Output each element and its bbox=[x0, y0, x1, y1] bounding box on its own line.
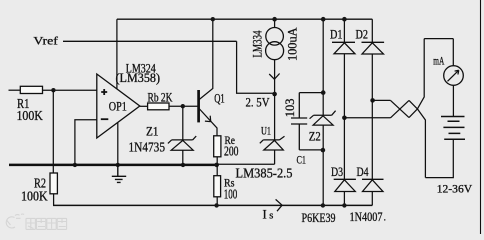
resistor R2 bbox=[50, 173, 57, 205]
svg-text:(LM358): (LM358) bbox=[116, 71, 161, 85]
node 2.5V label bbox=[246, 96, 270, 110]
resistor R1 bbox=[9, 86, 97, 93]
wire bottom return bbox=[53, 204, 372, 206]
svg-text:mA: mA bbox=[433, 56, 444, 68]
node junction Z1-bus bbox=[181, 163, 185, 167]
capacitor C1 103 bbox=[291, 93, 323, 150]
wire meter to battery bbox=[452, 85, 454, 116]
node R1 label bbox=[17, 96, 43, 124]
node D2 label bbox=[356, 27, 369, 42]
svg-text:12-36V: 12-36V bbox=[437, 181, 473, 195]
node junction C1 lower bbox=[321, 148, 326, 153]
svg-text:100K: 100K bbox=[21, 189, 48, 204]
battery 12-36V bbox=[441, 117, 465, 140]
node plus input bbox=[101, 89, 107, 95]
svg-text:Z1: Z1 bbox=[146, 124, 159, 139]
node junction minus-bus bbox=[73, 163, 77, 167]
node minus input bbox=[101, 118, 109, 120]
node LM334 label bbox=[250, 30, 265, 57]
svg-text:.: . bbox=[384, 213, 387, 224]
node U1 label bbox=[261, 124, 271, 138]
wire D2 node to crossover bbox=[373, 99, 391, 101]
transistor Q1 bbox=[199, 19, 217, 136]
diode D3 bbox=[334, 118, 356, 206]
node junction Q1 collector bbox=[211, 17, 215, 21]
node Re label bbox=[224, 135, 239, 158]
wire inverting input to bus bbox=[75, 120, 97, 165]
resistor Re bbox=[214, 136, 221, 164]
node Z1 label bbox=[129, 124, 166, 156]
resistor Rs bbox=[214, 165, 221, 206]
node Rs label bbox=[224, 178, 238, 202]
node mA label bbox=[433, 56, 444, 68]
svg-text:U1: U1 bbox=[261, 124, 271, 138]
node junction Re-Rs bbox=[214, 163, 219, 168]
svg-text:I: I bbox=[263, 207, 267, 221]
node Q1 label bbox=[214, 91, 225, 105]
zener Z2 bbox=[310, 111, 336, 125]
resistor Rb 2K bbox=[148, 103, 199, 110]
node junction Z2 upper bbox=[321, 90, 326, 95]
wire D2 to D4 bbox=[371, 100, 373, 179]
wire Vref to 2.5V node bbox=[237, 41, 275, 93]
node Z2 label bbox=[309, 128, 321, 143]
diode D1 bbox=[332, 19, 355, 118]
wire Vref bbox=[63, 40, 237, 42]
op-amp U1 OP1 bbox=[97, 74, 140, 138]
node 1N4007 label bbox=[350, 209, 387, 224]
wire op-amp V+ branch bbox=[116, 19, 118, 89]
svg-text:D3: D3 bbox=[331, 164, 343, 179]
wire meter loop top bbox=[424, 39, 453, 66]
node junction D3 bottom bbox=[342, 203, 346, 207]
svg-text:OP1: OP1 bbox=[109, 99, 127, 113]
svg-text:103: 103 bbox=[282, 99, 297, 118]
wire crossover and diamond connector bbox=[391, 39, 426, 178]
node Vref label bbox=[33, 34, 58, 48]
node LM385-2.5 label bbox=[236, 167, 293, 182]
zener Z1 bbox=[168, 106, 196, 165]
svg-text:R2: R2 bbox=[34, 176, 46, 191]
diode D2 bbox=[362, 19, 385, 100]
zener U1 LM385-2.5 bbox=[260, 94, 285, 164]
svg-text:D4: D4 bbox=[357, 164, 369, 179]
svg-text:LM334: LM334 bbox=[250, 30, 265, 57]
wire op-amp output bbox=[140, 105, 148, 107]
svg-text:Q1: Q1 bbox=[214, 91, 225, 105]
current source LM334 bbox=[266, 19, 284, 94]
watermark bbox=[6, 214, 66, 229]
meter mA bbox=[444, 66, 464, 86]
wire common bus bbox=[9, 164, 217, 167]
svg-text:100K: 100K bbox=[17, 109, 43, 124]
svg-text:Z2: Z2 bbox=[309, 128, 321, 143]
diode D4 bbox=[362, 179, 384, 205]
node junction Z2 bottom bbox=[321, 203, 325, 207]
svg-text:Vref: Vref bbox=[33, 34, 58, 48]
svg-text:s: s bbox=[269, 211, 273, 222]
node R2 label bbox=[21, 176, 48, 205]
svg-text:Rb 2K: Rb 2K bbox=[148, 91, 173, 105]
node LM324 LM358 label bbox=[116, 61, 161, 85]
wire battery bottom return bbox=[425, 139, 453, 177]
node junction 2.5V bbox=[272, 92, 277, 97]
wire op-amp V- pin to bus bbox=[117, 122, 119, 164]
node Rb label bbox=[148, 91, 173, 105]
svg-text:1N4007: 1N4007 bbox=[350, 209, 383, 224]
svg-text:LM385-2.5: LM385-2.5 bbox=[236, 167, 293, 182]
node junction D2 mid bbox=[370, 98, 375, 103]
ground bbox=[112, 165, 126, 183]
node D3 label bbox=[331, 164, 343, 179]
wire top rail bbox=[117, 18, 372, 20]
node 12-36V label bbox=[437, 181, 473, 195]
node junction LM334 top bbox=[272, 17, 277, 22]
node junction Rs-bottom bbox=[214, 203, 218, 207]
svg-text:D1: D1 bbox=[330, 27, 343, 42]
svg-text:100uA: 100uA bbox=[285, 27, 300, 61]
svg-text:100: 100 bbox=[224, 186, 238, 201]
svg-text:D2: D2 bbox=[356, 27, 369, 42]
node D4 label bbox=[357, 164, 369, 179]
wire Z2 column bbox=[322, 19, 324, 205]
svg-text:1N4735: 1N4735 bbox=[129, 141, 166, 156]
node C1 label bbox=[297, 152, 307, 166]
node junction D1 top bbox=[342, 17, 347, 22]
node D1 label bbox=[330, 27, 343, 42]
node P6KE39 label bbox=[302, 210, 336, 225]
node junction Vminus-bus bbox=[116, 163, 120, 167]
wire right border bbox=[480, 0, 482, 234]
svg-text:P6KE39: P6KE39 bbox=[302, 210, 336, 225]
wire bus to U1 bbox=[217, 163, 275, 165]
node junction Z2 top rail bbox=[321, 17, 326, 22]
node 100uA label bbox=[285, 27, 300, 61]
svg-text:200: 200 bbox=[224, 144, 239, 159]
wire R1-R2 junction down bbox=[52, 90, 54, 173]
node junction D1 mid bbox=[342, 116, 347, 121]
node 103 label bbox=[282, 99, 297, 118]
node junction base node bbox=[181, 104, 185, 108]
node OP1 label bbox=[109, 99, 127, 113]
svg-text:2. 5V: 2. 5V bbox=[246, 96, 270, 110]
node junction R1/R2 bbox=[51, 88, 55, 92]
wire D1 node to crossover bbox=[344, 117, 390, 119]
svg-text:C1: C1 bbox=[297, 152, 307, 166]
node Is label and arrow bbox=[276, 199, 283, 211]
